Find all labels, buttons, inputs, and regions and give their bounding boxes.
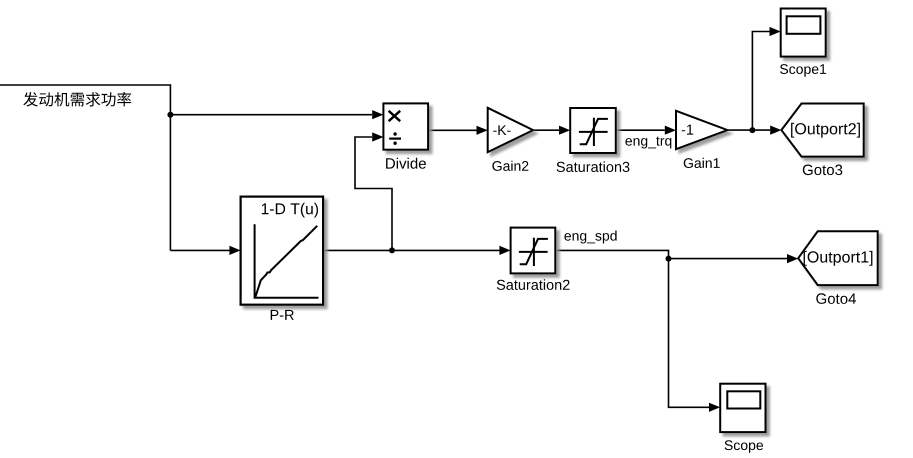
block label Divide (386, 158, 426, 169)
wire Gain2 output to Saturation3 input (533, 129, 559, 131)
block Scope (720, 384, 765, 432)
block Gain1 (gain -1) (676, 111, 728, 149)
block Goto4 (tag [Outport1]) (798, 231, 878, 285)
value label [Outport2] (791, 123, 860, 138)
value label -1 (682, 125, 694, 135)
block label Gain2 (492, 161, 528, 171)
wire left vertical trunk (169, 85, 171, 250)
node input label 发动机需求功率 (23, 92, 131, 107)
wire feedback J2 to Divide input 2 (355, 137, 392, 250)
wire top horizontal from left edge (0, 84, 171, 86)
block label Goto3 (803, 165, 843, 176)
wire J3 to Goto4 input (669, 258, 788, 260)
block label Saturation3 (557, 161, 630, 172)
value label 1-D T(u) (262, 203, 318, 218)
wire J1 to Divide input 1 (170, 114, 372, 116)
block Divide (product/divide) (383, 103, 428, 149)
wire J4 up to Scope1 input (752, 32, 769, 131)
wire Saturation2 output to J3 corner (555, 250, 668, 258)
block Saturation3 (570, 108, 616, 153)
block label Goto4 (816, 293, 856, 304)
node signal label eng_trq (625, 137, 671, 149)
block label P-R (271, 310, 294, 320)
wire P-R output to Saturation2 input (323, 249, 499, 251)
block Saturation2 (511, 228, 556, 274)
block Goto3 (tag [Outport2]) (781, 104, 863, 157)
block Scope1 (781, 9, 826, 57)
node signal label eng_spd (564, 231, 616, 244)
block label Scope (725, 440, 763, 453)
value label [Outport1] (804, 251, 873, 266)
node junction J3 (666, 256, 672, 262)
wire Divide output to Gain2 input (428, 129, 476, 131)
wire trunk to P-R input (170, 249, 229, 251)
wire J3 down to Scope input (669, 259, 710, 408)
block P-R 1-D lookup table (241, 197, 324, 305)
node junction J2 (389, 247, 395, 253)
wire Gain1 output to Goto3 input (728, 129, 771, 131)
block label Gain1 (684, 158, 720, 168)
block label Scope1 (780, 64, 826, 77)
block label Saturation2 (497, 279, 570, 290)
value label -K- (493, 125, 510, 135)
block Gain2 (gain -K-) (488, 108, 533, 152)
node junction J1 (167, 112, 173, 118)
wire Saturation3 output to Gain1 input (616, 129, 665, 131)
node junction J4 (749, 127, 755, 133)
